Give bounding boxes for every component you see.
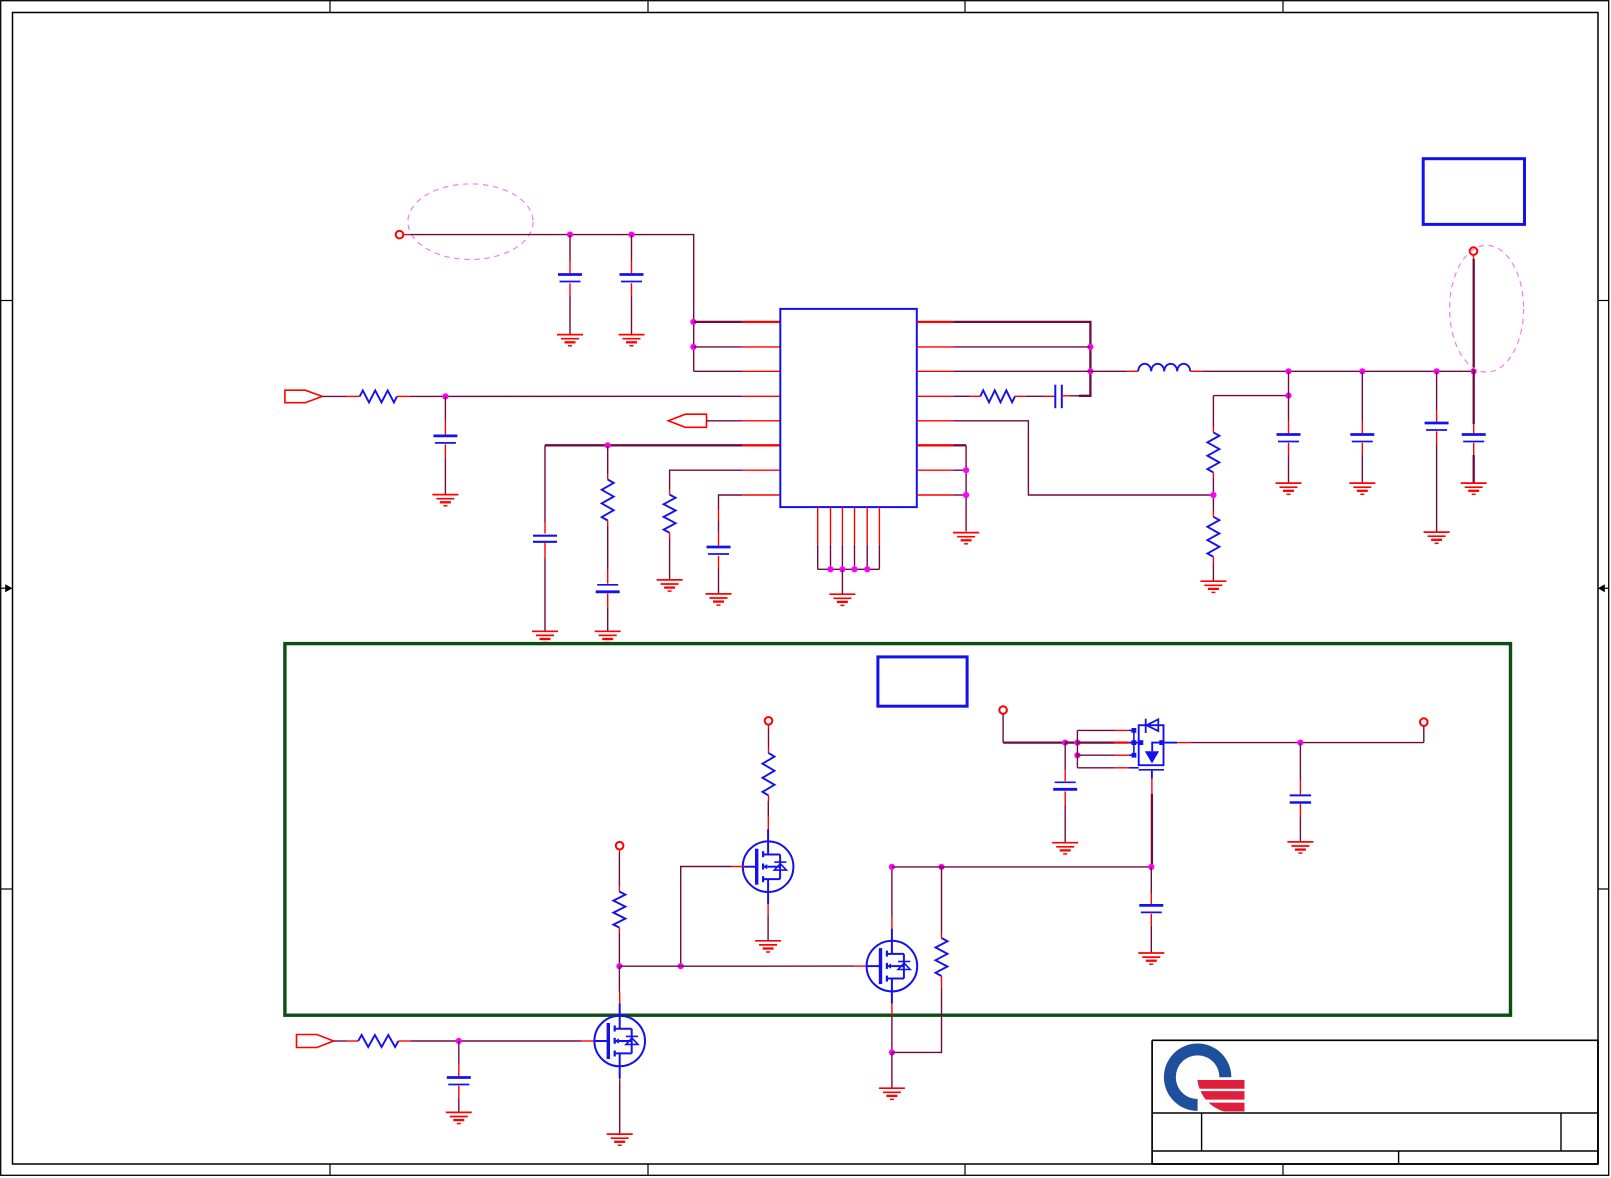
wire xyxy=(1002,714,1004,742)
wire xyxy=(1077,741,1114,743)
section box xyxy=(285,644,1511,1016)
wire xyxy=(953,346,1090,348)
wire xyxy=(619,1080,621,1134)
pin xyxy=(398,1040,411,1042)
wire xyxy=(631,235,633,261)
wire xyxy=(669,538,671,580)
pin xyxy=(607,474,609,480)
pin xyxy=(1212,557,1214,563)
node xyxy=(1285,368,1291,374)
capacitor C14 xyxy=(1139,905,1163,912)
wire xyxy=(718,521,720,532)
title block xyxy=(1152,1040,1598,1164)
pin xyxy=(941,976,943,987)
node xyxy=(1471,368,1477,374)
pin xyxy=(619,1079,621,1081)
wire xyxy=(619,965,854,967)
node xyxy=(827,566,870,572)
pin xyxy=(1062,395,1071,397)
resistor R9 xyxy=(936,938,948,976)
wire xyxy=(1436,431,1438,443)
node xyxy=(963,492,969,498)
node xyxy=(1297,740,1303,746)
wire xyxy=(953,469,966,471)
pin xyxy=(1212,511,1214,517)
wire xyxy=(767,801,769,817)
pin xyxy=(1473,255,1475,259)
pin xyxy=(669,489,671,495)
wire xyxy=(1473,371,1475,424)
transistor Q4 (load switch) xyxy=(1129,719,1177,779)
pin xyxy=(768,725,770,729)
wire xyxy=(607,570,609,584)
ground xyxy=(1349,483,1375,494)
node xyxy=(1074,740,1080,746)
wire xyxy=(631,283,633,296)
wire xyxy=(767,916,769,941)
wire xyxy=(694,370,743,372)
wire xyxy=(618,853,620,887)
capacitor C15 xyxy=(447,1078,471,1085)
wire xyxy=(545,444,743,446)
wire xyxy=(569,235,571,261)
capacitor C8 xyxy=(1277,435,1301,442)
node xyxy=(567,232,573,238)
node xyxy=(690,344,696,350)
node xyxy=(1210,492,1216,498)
ground xyxy=(595,631,621,642)
wire xyxy=(953,322,1090,396)
wire xyxy=(1299,804,1301,817)
wire xyxy=(891,867,893,917)
IC bottom pins xyxy=(818,507,880,569)
wire xyxy=(1150,914,1152,926)
wire xyxy=(569,261,571,273)
resistor R1 xyxy=(360,390,397,402)
pin xyxy=(743,444,781,446)
pin xyxy=(743,321,781,323)
wire xyxy=(444,396,446,421)
pin xyxy=(917,346,953,348)
wire xyxy=(953,395,969,397)
pin xyxy=(891,917,893,929)
pin xyxy=(581,1040,595,1042)
capacitor C7 xyxy=(1055,385,1062,409)
wire xyxy=(458,1098,460,1112)
inductor L1 xyxy=(1138,364,1190,371)
pin xyxy=(743,469,781,471)
capacitor C5 xyxy=(596,585,620,592)
wire xyxy=(718,532,720,546)
node xyxy=(1434,368,1440,374)
wire xyxy=(404,234,411,236)
wire xyxy=(1288,371,1290,421)
net label CTRL xyxy=(297,1035,334,1048)
resistor R6 xyxy=(1207,517,1219,557)
node xyxy=(616,963,622,969)
pin xyxy=(1151,779,1153,794)
highlight ellipse E2 xyxy=(1450,245,1524,372)
wire xyxy=(953,421,1213,495)
wire xyxy=(818,568,880,570)
wire xyxy=(607,526,609,570)
pin xyxy=(618,928,620,933)
right center arrow xyxy=(1598,584,1609,592)
terminal J6 xyxy=(1420,718,1428,726)
wire xyxy=(631,261,633,273)
wire xyxy=(1436,371,1438,410)
pin xyxy=(891,1004,893,1016)
pin xyxy=(669,533,671,538)
wire xyxy=(1436,410,1438,422)
wire xyxy=(544,543,546,558)
node xyxy=(678,963,684,969)
node xyxy=(1359,368,1365,374)
pin xyxy=(743,395,781,397)
pin xyxy=(1115,741,1129,743)
terminal J1 xyxy=(396,231,404,239)
node xyxy=(1087,368,1093,374)
node xyxy=(605,442,611,448)
capacitor C10 xyxy=(1425,423,1449,430)
pin xyxy=(397,395,410,397)
wire xyxy=(444,444,446,458)
wire xyxy=(1202,370,1473,372)
wire xyxy=(892,987,942,1052)
wire xyxy=(322,395,346,397)
pin xyxy=(1115,767,1129,769)
ground xyxy=(1276,483,1302,494)
pin xyxy=(969,395,980,397)
wire xyxy=(1436,443,1438,532)
ground xyxy=(657,580,683,591)
pin xyxy=(1044,395,1055,397)
pin xyxy=(346,395,360,397)
wire xyxy=(1071,395,1079,397)
pin xyxy=(743,494,781,496)
wire xyxy=(891,1016,893,1053)
ground xyxy=(532,631,558,642)
terminal J3 xyxy=(765,717,773,725)
wire xyxy=(544,558,546,631)
node xyxy=(963,467,969,473)
wire xyxy=(768,729,770,748)
block label box B2 xyxy=(878,657,967,706)
node xyxy=(1074,752,1080,758)
wire xyxy=(1361,455,1363,483)
wire xyxy=(1064,791,1066,805)
wire xyxy=(1299,817,1301,842)
wire xyxy=(694,321,743,323)
wire xyxy=(670,470,743,489)
pin xyxy=(732,866,745,868)
pin xyxy=(1212,427,1214,432)
ground xyxy=(953,533,979,544)
node xyxy=(889,1049,895,1055)
ground xyxy=(1052,843,1078,854)
pin xyxy=(768,795,770,801)
wire xyxy=(607,445,609,474)
pin xyxy=(941,932,943,938)
resistor R4 xyxy=(980,390,1015,402)
node xyxy=(1062,740,1068,746)
pin xyxy=(767,904,769,915)
wire xyxy=(953,370,1090,372)
wire xyxy=(411,1040,581,1042)
wire xyxy=(953,494,966,496)
wire xyxy=(1473,455,1475,483)
wire xyxy=(1064,743,1066,770)
node xyxy=(889,864,895,870)
node xyxy=(442,393,448,399)
block label box B1 xyxy=(1423,159,1524,225)
resistor R8 xyxy=(613,892,625,928)
node xyxy=(1285,393,1291,399)
wire xyxy=(1288,421,1290,433)
ground xyxy=(1138,953,1164,964)
pin xyxy=(1177,742,1190,744)
wire xyxy=(1150,867,1152,893)
net label EN xyxy=(668,414,706,427)
wire xyxy=(1299,780,1301,794)
pin xyxy=(1115,729,1129,731)
wire xyxy=(544,522,546,534)
pin xyxy=(767,817,769,831)
wire xyxy=(631,296,633,335)
node xyxy=(1087,344,1093,350)
pin xyxy=(768,748,770,754)
capacitor C3 xyxy=(433,436,457,443)
pin xyxy=(743,420,781,422)
transistor Q2 xyxy=(867,929,918,1004)
wire xyxy=(1150,893,1152,904)
wire xyxy=(1190,742,1424,744)
ground xyxy=(446,1112,472,1123)
capacitor C11 xyxy=(1462,435,1486,442)
wire xyxy=(1361,371,1363,421)
capacitor C9 xyxy=(1350,435,1374,442)
wire xyxy=(544,445,546,522)
wire xyxy=(1003,741,1065,743)
wire xyxy=(569,296,571,335)
pin xyxy=(618,886,620,892)
resistor R10 xyxy=(358,1035,398,1047)
wire xyxy=(1361,443,1363,455)
wire xyxy=(1361,421,1363,433)
wire xyxy=(1064,805,1066,843)
wire xyxy=(607,594,609,608)
wire xyxy=(618,933,620,966)
wire xyxy=(444,421,446,435)
wire xyxy=(1065,741,1077,743)
terminal J4 xyxy=(616,842,624,850)
wire xyxy=(444,458,446,495)
wire xyxy=(1212,562,1214,581)
wire xyxy=(569,283,571,296)
IC U1 xyxy=(780,309,917,507)
node xyxy=(1148,864,1154,870)
ground xyxy=(1287,842,1313,853)
wire xyxy=(1090,370,1127,372)
resistor R7 xyxy=(763,753,775,795)
node xyxy=(690,319,696,325)
ground xyxy=(1461,483,1487,494)
ground xyxy=(619,335,645,346)
wire xyxy=(965,445,967,531)
wire xyxy=(334,1040,347,1042)
pin xyxy=(917,494,953,496)
wire xyxy=(1473,424,1475,433)
wire xyxy=(1213,395,1288,397)
wire xyxy=(1150,926,1152,953)
wire xyxy=(1473,443,1475,455)
left center arrow xyxy=(1,584,13,592)
ground xyxy=(755,941,781,952)
wire xyxy=(1151,794,1153,867)
ground xyxy=(432,495,458,506)
wire xyxy=(1288,443,1290,455)
pin xyxy=(1127,370,1138,372)
wire xyxy=(694,346,743,348)
wire xyxy=(1077,729,1114,731)
wire xyxy=(618,966,620,992)
wire xyxy=(892,866,1152,868)
wire xyxy=(718,568,720,594)
capacitor C1 xyxy=(558,275,582,282)
wire xyxy=(1288,455,1290,483)
pin xyxy=(917,395,953,397)
ground xyxy=(1200,581,1226,592)
wire xyxy=(1076,730,1078,767)
capacitor C6 xyxy=(707,547,731,554)
wire xyxy=(718,556,720,568)
pin xyxy=(1015,395,1027,397)
transistor Q1 xyxy=(743,829,794,904)
pin xyxy=(917,469,953,471)
wire xyxy=(1077,767,1114,769)
pin xyxy=(619,850,621,853)
node xyxy=(628,232,634,238)
wire xyxy=(1077,754,1114,756)
node xyxy=(456,1038,462,1044)
pin xyxy=(743,370,781,372)
capacitor C12 xyxy=(1053,782,1077,789)
wire xyxy=(607,607,609,631)
capacitor C13 xyxy=(1290,795,1311,802)
wire xyxy=(1064,770,1066,781)
ground xyxy=(1424,532,1450,543)
resistor R5 xyxy=(1207,432,1219,472)
wire xyxy=(941,867,943,932)
wire xyxy=(719,495,743,510)
pin xyxy=(1115,754,1129,756)
pin xyxy=(917,420,953,422)
terminal J2 xyxy=(1470,247,1478,255)
wire xyxy=(1473,259,1475,371)
pin xyxy=(1212,472,1214,478)
wire xyxy=(458,1086,460,1098)
transistor Q3 xyxy=(594,1004,645,1079)
wire xyxy=(1299,743,1301,780)
wire xyxy=(891,1052,893,1087)
ground xyxy=(557,335,583,346)
wire xyxy=(410,395,743,397)
pin xyxy=(1190,370,1202,372)
pin xyxy=(917,370,953,372)
wire xyxy=(458,1041,460,1064)
pin xyxy=(607,521,609,527)
pin xyxy=(718,510,720,521)
wire xyxy=(1423,726,1425,742)
wire xyxy=(458,1064,460,1076)
ground xyxy=(879,1088,905,1099)
wire xyxy=(841,569,843,594)
pin xyxy=(619,992,621,1004)
pin xyxy=(917,444,953,446)
wire xyxy=(1212,396,1214,427)
capacitor C4 xyxy=(533,536,557,542)
terminal J5 xyxy=(999,706,1007,714)
net label IN xyxy=(285,390,322,403)
ground xyxy=(829,594,855,605)
wire xyxy=(1027,395,1045,397)
Quanta logo xyxy=(1164,1039,1271,1113)
capacitor C2 xyxy=(620,275,644,282)
resistor R3 xyxy=(664,495,676,533)
node xyxy=(938,864,944,870)
pin xyxy=(854,965,868,967)
wire xyxy=(1212,478,1214,511)
wire xyxy=(411,235,694,372)
pin xyxy=(347,1040,359,1042)
highlight ellipse E1 xyxy=(408,184,533,260)
resistor R2 xyxy=(602,480,614,521)
ground xyxy=(706,594,732,605)
pin xyxy=(743,346,781,348)
pin xyxy=(917,321,953,323)
wire xyxy=(681,867,732,967)
ground xyxy=(607,1134,633,1145)
wire xyxy=(953,444,966,446)
wire xyxy=(707,420,743,422)
